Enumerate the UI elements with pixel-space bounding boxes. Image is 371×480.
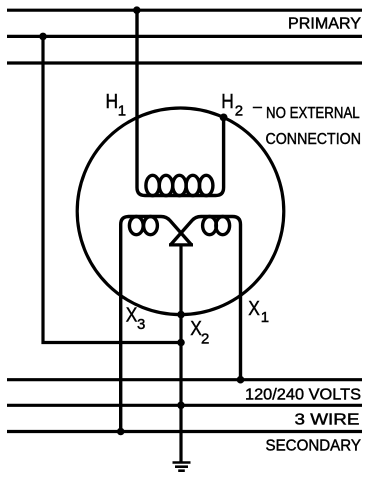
primary winding loop 5	[200, 175, 213, 195]
svg-text:2: 2	[201, 331, 209, 348]
wire: X3 lead and left secondary winding top run with tap diagonal	[121, 217, 192, 432]
svg-text:SECONDARY: SECONDARY	[266, 438, 362, 455]
junction dot: H2 terminal on core (no external connection)	[220, 114, 228, 122]
svg-text:1: 1	[118, 102, 126, 119]
svg-text:H: H	[221, 90, 234, 112]
junction dot: X2 lead on secondary line 2	[177, 402, 185, 410]
svg-text:CONNECTION: CONNECTION	[266, 131, 362, 148]
primary winding loop 3	[173, 175, 186, 195]
wire: X2 center tap lead down to ground	[179, 245, 182, 463]
svg-text:–: –	[253, 99, 262, 116]
center tap arrow base	[169, 243, 193, 246]
wire: secondary bus line 3	[7, 430, 362, 433]
ground symbol	[173, 461, 191, 464]
svg-text:H: H	[106, 90, 119, 112]
svg-text:2: 2	[235, 102, 243, 119]
wire: primary neutral drop to center tap	[43, 36, 181, 342]
junction dot: neutral drop on primary line 2	[39, 33, 47, 41]
svg-text:3 WIRE: 3 WIRE	[295, 412, 360, 429]
wire: secondary bus line 1	[7, 378, 362, 381]
transformer T1 core circle	[77, 108, 284, 315]
left secondary winding loop 1	[129, 217, 143, 235]
wire: primary bus line 1	[7, 9, 362, 12]
wire: primary bus line 3	[7, 61, 362, 64]
wire: secondary bus line 2 (neutral)	[7, 404, 362, 407]
svg-text:PRIMARY: PRIMARY	[288, 15, 361, 32]
primary winding loop 4	[186, 175, 199, 195]
wire: primary bus line 2 (neutral)	[7, 35, 362, 38]
junction dot: H1 lead on primary line 1	[133, 6, 141, 14]
right secondary winding loop 1	[203, 217, 217, 235]
svg-text:3: 3	[137, 316, 145, 333]
wire: H1 lead, primary winding bottom run, H2 lead	[137, 10, 224, 195]
svg-text:120/240 VOLTS: 120/240 VOLTS	[245, 387, 361, 404]
primary winding loop 2	[159, 175, 172, 195]
junction dot: X1 lead on secondary line 1	[237, 376, 245, 384]
left secondary winding loop 2	[144, 217, 158, 235]
svg-text:X: X	[248, 297, 260, 319]
right secondary winding loop 2	[216, 217, 230, 235]
junction dot: X3 lead on secondary line 3	[117, 428, 125, 436]
junction dot: neutral drop joins X2 lead	[177, 339, 185, 347]
primary winding loop 1	[146, 175, 159, 195]
wire: right secondary winding tap diagonal, top run and X1 lead	[171, 217, 241, 380]
svg-text:NO EXTERNAL: NO EXTERNAL	[266, 105, 360, 122]
junction dot: X2 lead crossing core circle	[177, 311, 185, 319]
svg-text:1: 1	[261, 309, 269, 326]
